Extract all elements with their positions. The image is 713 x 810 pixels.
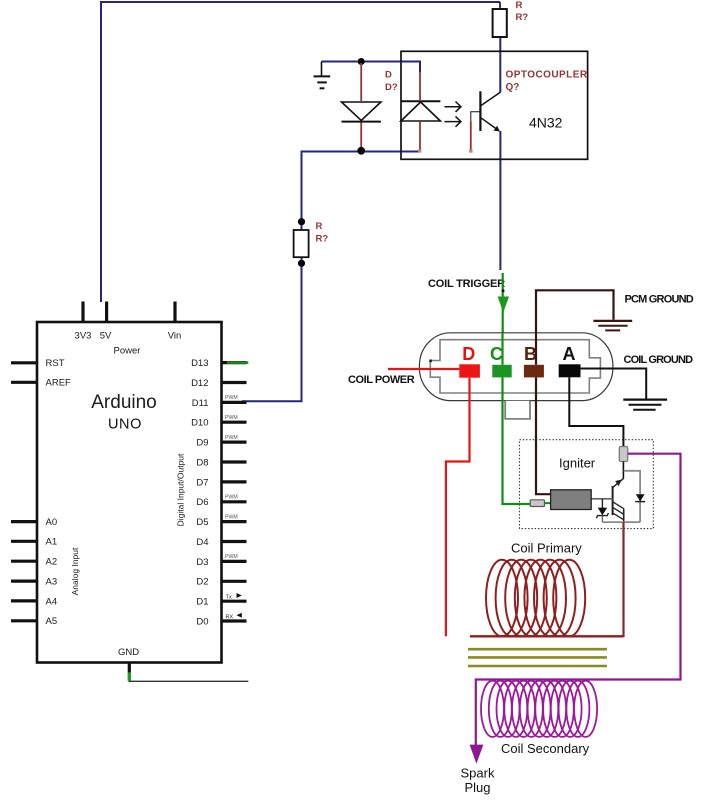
- pin A0 (left): [11, 517, 57, 528]
- wire pin C down to igniter (green): [503, 377, 531, 504]
- pin D2 (right): [196, 577, 246, 588]
- svg-text:Vin: Vin: [168, 331, 182, 342]
- pin D12 (right): [191, 378, 246, 389]
- svg-text:D: D: [385, 70, 392, 81]
- wire coil trigger (green) with arrow: [498, 273, 509, 365]
- pin dot LED cathode: [418, 149, 421, 152]
- svg-text:A1: A1: [46, 537, 58, 548]
- pin D4 (right): [196, 537, 246, 548]
- ground PCM (dark brown): [593, 321, 632, 331]
- wire LED anode (maroon) inside opto: [419, 72, 421, 100]
- label UNO: [108, 416, 142, 432]
- svg-text:Analog Input: Analog Input: [70, 547, 80, 595]
- svg-text:D?: D?: [385, 82, 398, 93]
- wire resistor R1 to collector: [499, 37, 501, 93]
- ground (top, near diode D): [314, 62, 331, 89]
- op-amp: optocoupler U1 box 4N32: [401, 51, 588, 159]
- pin RST (left): [11, 358, 65, 369]
- pin D3 (right): [196, 554, 246, 568]
- svg-text:R: R: [516, 0, 523, 11]
- svg-text:COIL POWER: COIL POWER: [348, 374, 415, 386]
- svg-text:PWM: PWM: [225, 495, 238, 501]
- svg-text:A3: A3: [46, 577, 58, 588]
- pin C (green): [492, 365, 511, 378]
- wire 5V top horizontal: [101, 2, 500, 302]
- resistor R2 (mid, on D11 net): [294, 230, 309, 257]
- pin A (black): [559, 364, 581, 377]
- svg-text:D9: D9: [196, 438, 208, 449]
- terminal lug (gray): [619, 447, 627, 462]
- wire emitter down to coil primary (dark red): [622, 522, 624, 637]
- svg-text:D11: D11: [192, 398, 209, 409]
- wire ground to LED anode: [322, 62, 421, 73]
- svg-text:Plug: Plug: [464, 780, 490, 795]
- junction dot D cathode: [357, 147, 365, 155]
- wire pin A down to igniter terminal (black): [569, 377, 623, 447]
- label pin C: [490, 344, 503, 364]
- svg-text:Tx: Tx: [226, 595, 232, 601]
- svg-text:5V: 5V: [100, 331, 112, 342]
- label Analog Input (vertical): [70, 547, 80, 595]
- diode flyback (right): [635, 494, 645, 501]
- svg-text:PWM: PWM: [225, 554, 238, 560]
- svg-text:Power: Power: [114, 346, 141, 357]
- svg-text:PWM: PWM: [225, 415, 238, 421]
- svg-text:A: A: [563, 344, 576, 364]
- svg-text:A4: A4: [46, 596, 58, 607]
- wire pin A to coil ground (black): [581, 369, 647, 399]
- pin D6 (right): [196, 495, 246, 509]
- wire purple from terminal to coil secondary: [476, 454, 681, 746]
- label R2 value "R R?": [316, 221, 329, 245]
- svg-text:RST: RST: [46, 358, 65, 369]
- svg-text:COIL TRIGGER: COIL TRIGGER: [428, 278, 505, 290]
- label Spark Plug: [461, 765, 495, 795]
- label COIL POWER: [348, 374, 415, 386]
- svg-text:Coil Primary: Coil Primary: [511, 540, 582, 555]
- svg-text:D: D: [462, 344, 475, 364]
- pin D5 (right): [196, 514, 246, 528]
- svg-text:3V3: 3V3: [75, 331, 92, 342]
- svg-text:D3: D3: [196, 557, 208, 568]
- label COIL GROUND: [624, 354, 694, 366]
- light arrow 1: [445, 102, 461, 112]
- label 3V3 5V Vin Power: [75, 331, 182, 357]
- wire LED cathode (maroon): [419, 122, 421, 150]
- pin 5V (top): [105, 302, 108, 323]
- pin D8 (right): [196, 457, 246, 468]
- wire base from driver (gray): [591, 498, 612, 500]
- svg-text:D7: D7: [196, 477, 208, 488]
- wire pin B down to igniter module (dark brown): [536, 377, 551, 494]
- svg-text:Digital Input/Output: Digital Input/Output: [176, 453, 186, 526]
- label R1 value "R R?": [516, 0, 529, 23]
- connector outer shell (stadium): [419, 333, 613, 401]
- svg-text:Igniter: Igniter: [559, 455, 596, 470]
- resistor igniter input (gray): [530, 500, 544, 507]
- Arduino UNO board outline: [37, 322, 222, 663]
- pin A2 (left): [11, 557, 57, 568]
- svg-text:AREF: AREF: [46, 378, 72, 389]
- igniter internal rails (gray): [602, 471, 640, 522]
- label Igniter: [559, 455, 596, 470]
- svg-text:D2: D2: [196, 577, 208, 588]
- svg-text:Q?: Q?: [506, 82, 520, 93]
- pin GND (bottom): [128, 663, 131, 673]
- pin AREF (left): [11, 378, 71, 389]
- svg-text:C: C: [490, 344, 503, 364]
- label pin B: [524, 344, 537, 364]
- label "D D?": [385, 70, 398, 94]
- svg-text:PWM: PWM: [225, 514, 238, 520]
- svg-text:PWM: PWM: [225, 395, 238, 401]
- pin 3V3 (top): [81, 302, 84, 323]
- LED inside optocoupler: [401, 101, 441, 121]
- svg-text:R?: R?: [316, 234, 329, 245]
- wire pin B to PCM ground (dark brown): [536, 290, 614, 365]
- svg-text:D8: D8: [196, 457, 208, 468]
- svg-text:UNO: UNO: [108, 416, 142, 432]
- svg-text:A5: A5: [46, 616, 58, 627]
- label 4N32: [529, 115, 563, 131]
- wire pin D down to coil primary (red): [446, 378, 470, 637]
- svg-text:Coil Secondary: Coil Secondary: [501, 741, 590, 756]
- svg-text:D0: D0: [196, 616, 208, 627]
- laminations (olive bars): [468, 649, 607, 666]
- pin A4 (left): [11, 596, 57, 607]
- label OPTOCOUPLER Q?: [506, 70, 588, 94]
- pin D1 (right): [196, 593, 246, 608]
- svg-text:A0: A0: [46, 517, 58, 528]
- wire GND horizontal: [129, 680, 249, 682]
- wire GND green segment: [128, 673, 131, 681]
- label Coil Secondary: [501, 741, 590, 756]
- svg-text:PCM GROUND: PCM GROUND: [625, 294, 694, 306]
- wire coil power (red): [388, 368, 459, 370]
- svg-text:GND: GND: [118, 647, 139, 658]
- svg-text:COIL GROUND: COIL GROUND: [624, 354, 694, 366]
- label Arduino: [91, 392, 157, 413]
- wire emitter to coil trigger: [499, 131, 501, 270]
- junction dot at ground net / D anode: [358, 58, 365, 65]
- junction dot resistor R2 top: [298, 218, 305, 225]
- svg-text:A2: A2: [46, 557, 58, 568]
- pin D10 (right): [191, 415, 246, 429]
- svg-text:Arduino: Arduino: [91, 392, 157, 413]
- label pin D: [462, 344, 475, 364]
- inductor coil secondary (purple): [481, 681, 597, 737]
- svg-text:Spark: Spark: [461, 765, 495, 780]
- transistor IGBT inside igniter: [613, 479, 624, 522]
- diode D (external): [342, 102, 381, 122]
- pin D7 (right): [196, 477, 246, 488]
- pin D9 (right): [196, 435, 246, 449]
- pin D13 (right): [191, 358, 248, 369]
- svg-text:D12: D12: [191, 378, 208, 389]
- svg-text:4N32: 4N32: [529, 115, 563, 131]
- pin A5 (left): [11, 616, 57, 627]
- svg-text:PWM: PWM: [225, 435, 238, 441]
- pin D11 (right): [192, 395, 247, 409]
- svg-text:D5: D5: [196, 517, 208, 528]
- junction dot resistor R2 bottom: [298, 260, 305, 267]
- transistor Q (phototransistor of 4N32): [471, 91, 501, 131]
- ground coil (black): [623, 400, 667, 410]
- svg-text:RX: RX: [226, 614, 234, 620]
- connector bottom tab: [505, 401, 530, 419]
- pin B (dark brown): [524, 365, 544, 378]
- label Digital Input/Output (vertical): [176, 453, 186, 526]
- svg-text:D10: D10: [191, 418, 208, 429]
- resistor R1 (top): [493, 2, 507, 37]
- pin A3 (left): [11, 577, 57, 588]
- pin D (red): [459, 364, 480, 377]
- svg-text:D4: D4: [196, 537, 208, 548]
- svg-text:R?: R?: [516, 12, 529, 23]
- svg-text:OPTOCOUPLER: OPTOCOUPLER: [506, 70, 588, 81]
- diode zener (protection): [596, 499, 608, 522]
- WIRES-BLUE: [101, 2, 500, 401]
- igniter driver module (gray box): [551, 490, 592, 510]
- label PCM GROUND: [625, 294, 694, 306]
- svg-text:D13: D13: [191, 358, 208, 369]
- wire D11 to resistor to opto: [242, 152, 420, 402]
- wire D cathode (maroon): [360, 123, 362, 150]
- igniter dotted box: [520, 440, 654, 529]
- pin A1 (left): [11, 537, 57, 548]
- inductor coil primary (dark red): [470, 560, 624, 637]
- pin Vin (top): [173, 302, 176, 323]
- wire terminal to IGBT collector (black): [622, 462, 624, 479]
- wire resistor to driver (green): [545, 502, 551, 504]
- label pin A: [563, 344, 576, 364]
- spark plug arrow (purple): [470, 745, 484, 764]
- wire pin C feed (green through connector): [501, 333, 503, 365]
- wire base lead (maroon): [470, 122, 472, 150]
- label Coil Primary: [511, 540, 582, 555]
- pin D0 (right): [196, 613, 246, 628]
- label GND: [118, 647, 139, 658]
- light arrow 2: [445, 116, 461, 126]
- node corner mark on left notch: [429, 360, 432, 363]
- connector inner outline with key notches: [430, 340, 600, 393]
- wire D anode (maroon): [360, 63, 362, 101]
- svg-text:D6: D6: [196, 497, 208, 508]
- svg-text:R: R: [316, 221, 323, 232]
- label COIL TRIGGER: [428, 278, 505, 290]
- svg-text:D1: D1: [196, 597, 208, 608]
- pin dot base lead: [469, 149, 472, 152]
